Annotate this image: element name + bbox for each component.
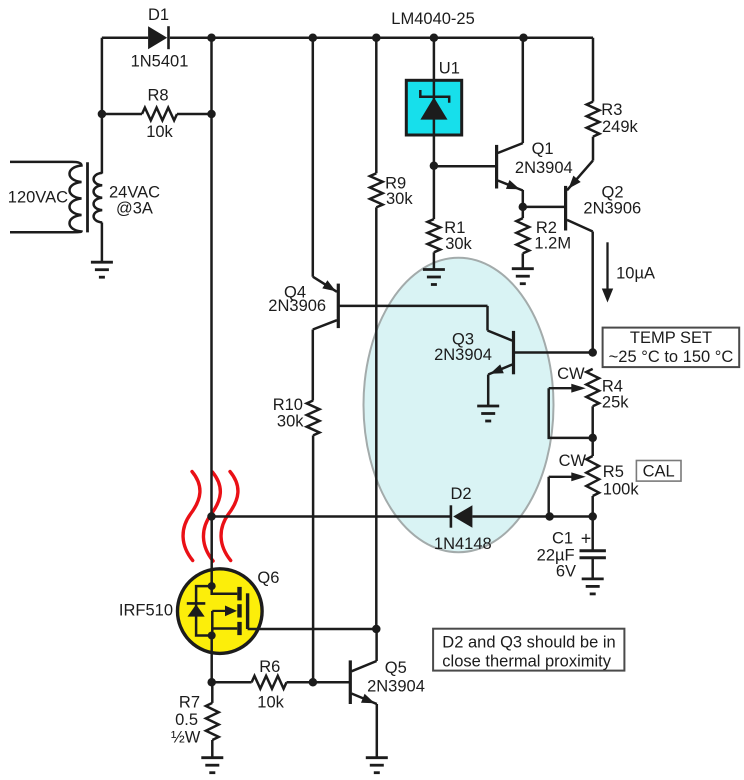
wire Q4 collector to R10 bbox=[312, 330, 315, 401]
label R2 bbox=[536, 219, 557, 237]
wire R9 bottom lead bbox=[375, 207, 378, 629]
label U1 bbox=[439, 60, 460, 78]
callout TEMP SET box bbox=[603, 328, 740, 368]
callout thermal proximity note bbox=[433, 629, 624, 671]
node Q6 source R7 junction bbox=[207, 678, 216, 687]
label R9 bbox=[385, 175, 406, 193]
wire U1 top lead bbox=[433, 38, 436, 81]
wire R7 top lead bbox=[211, 682, 214, 703]
ground below transformer bbox=[91, 262, 113, 277]
svg-text:D2: D2 bbox=[450, 485, 471, 503]
label 10uA bbox=[616, 264, 655, 282]
wire Q5 emitter down bbox=[376, 704, 379, 758]
node rail Q1 collector bbox=[519, 33, 528, 42]
wire R2 bottom lead bbox=[522, 253, 525, 268]
node rail-R8 right junction bbox=[207, 110, 216, 119]
ground below Q3 emitter bbox=[477, 406, 499, 421]
node LM4040-25 label bbox=[391, 10, 474, 28]
R5 wiper arrow bbox=[549, 472, 586, 481]
node rail x376 bbox=[372, 33, 381, 42]
Q6 gate electrode bbox=[246, 593, 249, 629]
node rail x312 bbox=[309, 33, 318, 42]
label 120VAC bbox=[8, 189, 68, 207]
resistor R7 bbox=[206, 703, 219, 740]
svg-text:~25 °C to 150 °C: ~25 °C to 150 °C bbox=[609, 348, 734, 366]
wire Q1 emitter down bbox=[522, 190, 525, 207]
label Q3 type 2N3904 bbox=[434, 346, 492, 364]
heat wave squiggle left bbox=[183, 472, 200, 561]
label R6 bbox=[259, 658, 280, 676]
wire Q6 drain lead bbox=[210, 517, 213, 587]
svg-text:120VAC: 120VAC bbox=[8, 189, 68, 207]
transistor Q5 2N3904 bbox=[350, 660, 377, 704]
svg-text:1.2M: 1.2M bbox=[534, 235, 571, 253]
node rail-R8 left junction bbox=[98, 110, 107, 119]
node R6-R10 junction bbox=[309, 678, 318, 687]
wire R4 bottom lead bbox=[591, 406, 594, 456]
label D2 bbox=[450, 485, 471, 503]
label IRF510 bbox=[119, 602, 173, 620]
label Q1 type 2N3904 bbox=[515, 159, 573, 177]
potentiometer R4 bbox=[586, 369, 599, 406]
wire top rail left of D1 bbox=[102, 36, 148, 39]
label R3 value 249k bbox=[602, 118, 639, 136]
label 24VAC bbox=[109, 184, 160, 202]
wire C1 bottom lead bbox=[591, 558, 594, 579]
label R8 bbox=[147, 87, 168, 105]
label 1N5401 bbox=[131, 53, 189, 71]
node R4 bottom junction bbox=[588, 434, 597, 443]
wire D1 cathode node vertical bbox=[210, 38, 213, 517]
label Q4 type 2N3906 bbox=[268, 297, 326, 315]
svg-text:R10: R10 bbox=[273, 396, 303, 414]
svg-text:10µA: 10µA bbox=[616, 264, 655, 282]
wire D2 rail right segment bbox=[472, 515, 592, 518]
svg-text:2N3904: 2N3904 bbox=[434, 346, 492, 364]
label R5 value 100k bbox=[603, 480, 640, 498]
label C1 voltage 6V bbox=[556, 562, 576, 580]
label R9 value 30k bbox=[386, 190, 413, 208]
label @3A bbox=[116, 200, 153, 218]
node rail x211 bbox=[207, 33, 216, 42]
wire R8 left lead bbox=[102, 113, 142, 116]
wire R4 wiper to bottom bbox=[549, 388, 593, 438]
wire secondary bottom lead bbox=[101, 223, 104, 263]
wire U1 node to Q1 base bbox=[434, 165, 497, 168]
resistor R3 bbox=[587, 102, 600, 137]
node Q1 emitter junction bbox=[519, 203, 528, 212]
svg-text:LM4040-25: LM4040-25 bbox=[391, 10, 474, 28]
svg-text:CW: CW bbox=[559, 452, 587, 470]
resistor R8 bbox=[142, 108, 177, 121]
svg-text:½W: ½W bbox=[171, 728, 201, 746]
label R10 value 30k bbox=[277, 413, 304, 431]
wire R3 bottom lead bbox=[592, 137, 595, 161]
label C1 bbox=[552, 529, 573, 547]
wire Q3 emitter down bbox=[487, 375, 490, 407]
wire R10 bottom lead bbox=[312, 435, 315, 682]
node U1-R1 junction bbox=[430, 162, 439, 171]
wire R3 top lead bbox=[592, 38, 595, 102]
heat wave squiggle right bbox=[221, 472, 238, 561]
wire Q3 collector corner bbox=[486, 306, 489, 331]
diode D1 bbox=[148, 26, 168, 49]
label CW R5 bbox=[559, 452, 587, 470]
svg-text:R7: R7 bbox=[179, 694, 200, 712]
svg-text:IRF510: IRF510 bbox=[119, 602, 173, 620]
label C1 value 22uF bbox=[537, 547, 575, 565]
svg-text:C1: C1 bbox=[552, 529, 573, 547]
potentiometer R5 bbox=[586, 456, 599, 496]
node temp set junction bbox=[588, 348, 597, 357]
wire R6 right lead bbox=[287, 681, 313, 684]
wire top rail D1 cathode to R3 corner bbox=[170, 36, 593, 39]
wire rail to Q4 emitter bbox=[312, 38, 315, 277]
label Q2 bbox=[602, 184, 624, 202]
wire R2 top lead bbox=[522, 207, 525, 218]
node C1 top junction bbox=[588, 512, 597, 521]
wire R5 bottom lead bbox=[591, 496, 594, 517]
Q6 body arrow bbox=[212, 606, 237, 617]
node Q6 source junction bbox=[208, 632, 216, 640]
svg-text:6V: 6V bbox=[556, 562, 576, 580]
svg-text:30k: 30k bbox=[386, 190, 413, 208]
label Q4 bbox=[284, 283, 306, 301]
svg-text:2N3906: 2N3906 bbox=[583, 199, 641, 217]
label R7 value 0.5 bbox=[175, 711, 198, 729]
label D1 bbox=[148, 6, 169, 24]
svg-text:CW: CW bbox=[557, 365, 585, 383]
svg-text:R3: R3 bbox=[601, 101, 622, 119]
transformer T1 core bbox=[86, 162, 89, 232]
svg-text:Q1: Q1 bbox=[532, 140, 554, 158]
wire Q3 base to temp-set node bbox=[514, 351, 593, 354]
label C1 plus bbox=[581, 528, 592, 548]
Q6 source links bbox=[212, 611, 237, 636]
svg-text:U1: U1 bbox=[439, 60, 460, 78]
svg-text:TEMP SET: TEMP SET bbox=[630, 329, 712, 347]
resistor R1 bbox=[428, 219, 441, 252]
node R5 wiper junction bbox=[545, 512, 554, 521]
label Q2 type 2N3906 bbox=[583, 199, 641, 217]
resistor R10 bbox=[307, 401, 320, 436]
transformer T1 primary winding bbox=[10, 162, 82, 232]
label Q1 bbox=[532, 140, 554, 158]
label R7 wattage bbox=[171, 728, 201, 746]
label R1 bbox=[444, 219, 465, 237]
wire Q5 collector up bbox=[375, 629, 378, 661]
svg-text:D1: D1 bbox=[148, 6, 169, 24]
label Q5 type 2N3904 bbox=[367, 677, 425, 695]
label R4 value 25k bbox=[602, 393, 629, 411]
wire C1 top lead bbox=[591, 517, 594, 550]
capacitor C1 bbox=[580, 551, 606, 558]
ground below R2 bbox=[512, 269, 534, 284]
label R8 value 10k bbox=[146, 123, 173, 141]
wire Q2 base from node bbox=[523, 206, 566, 209]
svg-text:R5: R5 bbox=[603, 463, 624, 481]
svg-text:2N3904: 2N3904 bbox=[515, 159, 573, 177]
svg-text:10k: 10k bbox=[146, 123, 173, 141]
wire R6 left lead bbox=[212, 681, 252, 684]
wire Q4 base to Q3 collector corner bbox=[338, 305, 487, 308]
wire left branch vertical bbox=[101, 38, 104, 174]
label R3 bbox=[601, 101, 622, 119]
wire R1 bottom lead bbox=[433, 252, 436, 269]
wire Q1 collector to rail bbox=[522, 38, 525, 143]
svg-text:@3A: @3A bbox=[116, 200, 153, 218]
svg-text:R6: R6 bbox=[259, 658, 280, 676]
wire R7 bottom lead bbox=[211, 740, 214, 758]
label 1N4148 bbox=[434, 535, 492, 553]
callout CAL box bbox=[636, 461, 681, 482]
wire U1 bottom lead bbox=[433, 135, 436, 219]
svg-text:100k: 100k bbox=[603, 480, 640, 498]
label R10 bbox=[273, 396, 303, 414]
transistor Q1 2N3904 bbox=[497, 143, 523, 190]
ground below C1 bbox=[582, 579, 604, 594]
svg-text:249k: 249k bbox=[602, 118, 639, 136]
Q6 body diode bbox=[187, 586, 212, 635]
Q6 drain link to channel bbox=[212, 586, 238, 594]
label Q5 bbox=[385, 659, 407, 677]
svg-text:1N4148: 1N4148 bbox=[434, 535, 492, 553]
svg-text:1N5401: 1N5401 bbox=[131, 53, 189, 71]
svg-text:CAL: CAL bbox=[643, 463, 675, 481]
ground below Q5 bbox=[366, 758, 388, 773]
transistor Q6 body circle (IRF510) bbox=[178, 569, 263, 654]
heat wave squiggle middle bbox=[203, 472, 220, 561]
svg-text:25k: 25k bbox=[602, 393, 629, 411]
svg-text:2N3904: 2N3904 bbox=[367, 677, 425, 695]
label R4 bbox=[602, 378, 623, 396]
node D2 rail junction at x211 bbox=[207, 512, 216, 521]
label R2 value 1.2M bbox=[534, 235, 571, 253]
svg-text:30k: 30k bbox=[277, 413, 304, 431]
ground below R1 bbox=[423, 270, 445, 285]
transistor Q2 2N3906 bbox=[566, 161, 593, 232]
transformer T1 secondary winding bbox=[94, 173, 103, 223]
ground below R7 bbox=[201, 758, 223, 773]
wire R8 right lead bbox=[177, 113, 212, 116]
Q6 channel dashes bbox=[237, 587, 241, 635]
node Q6 drain junction bbox=[208, 582, 216, 590]
label R6 value 10k bbox=[257, 694, 284, 712]
resistor R2 bbox=[516, 218, 529, 253]
wire R5 wiper to D2 rail bbox=[547, 477, 550, 517]
thermal proximity highlight ellipse bbox=[364, 258, 554, 552]
svg-text:30k: 30k bbox=[445, 235, 472, 253]
label CW R4 bbox=[557, 365, 585, 383]
node gate-R9-Q5 junction bbox=[372, 625, 381, 634]
wire R6 node to Q5 base bbox=[313, 681, 350, 684]
svg-text:Q5: Q5 bbox=[385, 659, 407, 677]
wire Q2 collector down bbox=[591, 232, 594, 353]
op-amp U1 shunt reference box bbox=[406, 80, 461, 135]
label Q6 bbox=[257, 569, 279, 587]
svg-text:10k: 10k bbox=[257, 694, 284, 712]
resistor R9 bbox=[370, 173, 383, 207]
label R5 bbox=[603, 463, 624, 481]
svg-text:+: + bbox=[581, 528, 592, 548]
wire R9 top lead bbox=[375, 38, 378, 174]
svg-text:close thermal proximity: close thermal proximity bbox=[442, 653, 611, 671]
label R7 bbox=[179, 694, 200, 712]
label Q3 bbox=[452, 331, 474, 349]
svg-text:0.5: 0.5 bbox=[175, 711, 198, 729]
wire D2 rail left segment bbox=[212, 515, 451, 518]
transistor Q4 2N3906 bbox=[313, 277, 339, 330]
node rail U1 bbox=[430, 33, 439, 42]
svg-text:Q6: Q6 bbox=[257, 569, 279, 587]
zener diode symbol inside U1 bbox=[420, 80, 449, 135]
wire Q6 source lead bbox=[210, 636, 213, 683]
svg-text:R8: R8 bbox=[147, 87, 168, 105]
label R1 value 30k bbox=[445, 235, 472, 253]
wire Q6 gate lead to R9 net bbox=[248, 628, 377, 631]
diode D2 bbox=[451, 505, 473, 527]
svg-text:D2 and Q3 should be in: D2 and Q3 should be in bbox=[442, 634, 615, 652]
annotation 10uA current arrow bbox=[602, 242, 613, 302]
resistor R6 bbox=[252, 676, 287, 689]
transistor Q3 2N3904 bbox=[488, 331, 514, 375]
R4 wiper arrow bbox=[549, 384, 586, 393]
svg-text:2N3906: 2N3906 bbox=[268, 297, 326, 315]
